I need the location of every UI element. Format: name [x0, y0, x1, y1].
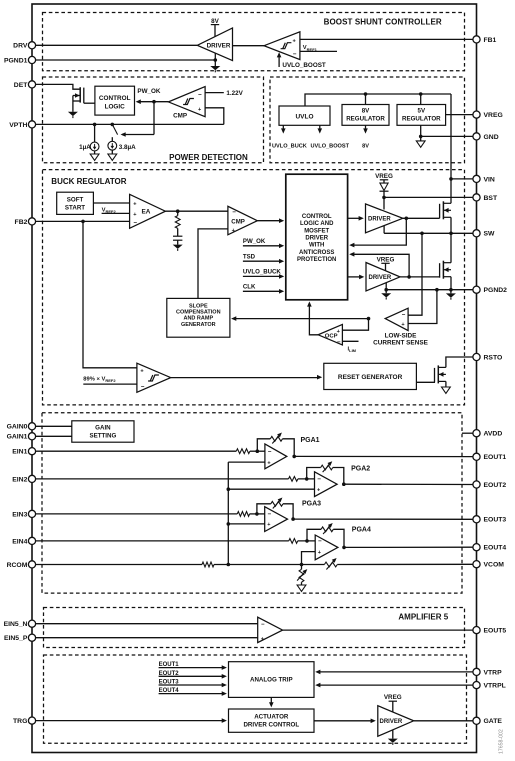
node high-side gate junction	[405, 217, 409, 221]
svg-text:3.8µA: 3.8µA	[119, 144, 136, 151]
wire PGA2 resistor to - input	[298, 478, 315, 480]
svg-text:AMPLIFIER 5: AMPLIFIER 5	[398, 612, 448, 621]
svg-text:VREG: VREG	[377, 256, 395, 263]
wire common-mode bus vertical	[227, 462, 229, 564]
ground compensation network (filled)	[173, 245, 183, 251]
svg-text:VTRP: VTRP	[484, 669, 503, 676]
node PGA2 summing junction	[305, 477, 309, 481]
current source 1uA	[79, 124, 99, 151]
svg-text:REGULATOR: REGULATOR	[346, 115, 385, 122]
wire PGND1 to driver ground node	[36, 59, 216, 61]
svg-text:DRIVER: DRIVER	[305, 236, 328, 242]
dashed box POWER DETECTION section	[43, 77, 264, 163]
pin DET	[14, 81, 36, 89]
svg-text:EIN5_N: EIN5_N	[4, 621, 28, 628]
wire EIN5_P to amplifier 5	[36, 637, 258, 639]
node SW junction current sense	[420, 232, 424, 236]
wire GAIN0 to gain setting	[36, 425, 72, 427]
svg-text:+: +	[267, 522, 270, 528]
svg-text:ANTICROSS: ANTICROSS	[299, 250, 334, 256]
ground gate driver (filled)	[388, 730, 398, 745]
node VPTH junction switch	[111, 123, 115, 127]
svg-text:LOGIC: LOGIC	[105, 103, 126, 110]
svg-text:DRIVER: DRIVER	[380, 719, 403, 725]
svg-text:GAIN0: GAIN0	[7, 424, 28, 431]
wire current sense + input to PGND2	[408, 290, 437, 324]
block SOFT START	[57, 192, 94, 214]
svg-text:PW_OK: PW_OK	[137, 88, 161, 95]
8V supply tick for boost driver	[211, 18, 220, 37]
wire PGA2 output to EOUT2	[344, 483, 473, 485]
svg-text:VREG: VREG	[484, 112, 503, 119]
ground PGND2 (filled)	[446, 290, 456, 300]
resistor PGA2 feedback (variable)	[307, 461, 344, 484]
ground regulator (open)	[416, 136, 425, 147]
wire slope comp to CMP + input	[198, 229, 228, 299]
pin GAIN1	[7, 433, 36, 441]
pin VTRP	[473, 668, 502, 676]
pin EOUT4	[473, 544, 506, 552]
resistor PGA3 feedback (variable)	[257, 498, 293, 520]
net UVLO_BUCK output arrow	[272, 125, 307, 149]
pin PGND1	[4, 56, 36, 64]
pin EOUT2	[473, 481, 506, 489]
op-amp PGA1	[265, 444, 287, 469]
net EOUT4 feedback into analog trip	[159, 688, 227, 696]
svg-text:CURRENT SENSE: CURRENT SENSE	[373, 340, 428, 347]
wire detect transistor gate to control logic	[84, 102, 95, 104]
svg-text:PGA3: PGA3	[302, 500, 321, 507]
svg-text:GENERATOR: GENERATOR	[181, 322, 216, 328]
svg-text:GND: GND	[484, 134, 499, 141]
wire bus drop to 5V regulator	[420, 94, 422, 105]
pin VPTH	[9, 121, 35, 129]
svg-text:UVLO_BOOST: UVLO_BOOST	[311, 143, 350, 149]
svg-text:PW_OK: PW_OK	[243, 238, 266, 245]
svg-text:BOOST SHUNT CONTROLLER: BOOST SHUNT CONTROLLER	[324, 18, 442, 27]
wire driver bottom edge to PGND1	[214, 53, 216, 60]
comparator reset threshold (hysteresis)	[137, 363, 171, 392]
dashed box PGA section	[42, 413, 462, 593]
pin EOUT3	[473, 516, 506, 524]
pin RSTO	[473, 353, 502, 361]
svg-text:GAIN1: GAIN1	[7, 434, 28, 441]
svg-text:MOSFET: MOSFET	[304, 228, 329, 234]
wire PGA3 output to EOUT3	[293, 518, 473, 520]
wire PGA4 + input down to RCOM	[302, 552, 316, 565]
pin GATE	[473, 717, 502, 725]
ground 1uA source (open)	[90, 151, 99, 161]
node PGA3 output junction	[291, 517, 295, 521]
pin VREG	[473, 111, 503, 119]
svg-text:PROTECTION: PROTECTION	[297, 257, 336, 263]
pin GND	[473, 133, 499, 141]
svg-text:UVLO_BOOST: UVLO_BOOST	[282, 62, 326, 69]
svg-text:SOFT: SOFT	[67, 197, 84, 204]
pin SW	[473, 230, 495, 238]
wire PGA2 + input to common bus	[228, 488, 314, 490]
comparator CMP power detect (hysteresis)	[168, 87, 205, 120]
pin EIN3	[12, 510, 35, 518]
pin EIN5_N	[4, 620, 36, 628]
wire reset comparator output to reset generator arrow	[171, 375, 323, 380]
transistor detect NMOS (gate right)	[73, 87, 84, 103]
svg-text:VREG: VREG	[375, 173, 393, 180]
node bus PGA3 + junction	[227, 522, 231, 526]
node RCOM PGA4 junction	[300, 563, 304, 567]
svg-text:−: −	[268, 449, 272, 456]
svg-text:DRIVER: DRIVER	[369, 275, 392, 281]
op-amp gate DRIVER	[378, 706, 414, 737]
wire low-side gate feedback into control box	[351, 254, 409, 277]
resistor compensation network	[175, 211, 180, 228]
svg-text:EIN5_P: EIN5_P	[4, 635, 28, 642]
node BST bootstrap junction	[382, 196, 386, 200]
wire PGA1 output to EOUT1	[294, 455, 473, 457]
svg-text:GATE: GATE	[484, 718, 503, 725]
svg-text:BUCK REGULATOR: BUCK REGULATOR	[51, 177, 126, 186]
wire FB2 junction down to 89% comparator	[83, 221, 137, 367]
pin EIN4	[12, 537, 35, 545]
pin EOUT5	[473, 627, 506, 635]
svg-text:−: −	[318, 538, 322, 545]
node SW junction mosfet	[449, 232, 453, 236]
wire VTRPL into analog trip arrow	[315, 683, 473, 688]
svg-text:EA: EA	[142, 209, 151, 216]
arrow low-side feedback into control box	[349, 252, 354, 257]
net VREG tick for gate driver	[384, 694, 402, 712]
current source 3.8uA	[108, 137, 136, 151]
svg-text:DET: DET	[14, 82, 28, 89]
op-amp PGA2	[315, 472, 338, 497]
node PGA4 summing junction	[305, 539, 309, 543]
resistor RCOM to ground (variable)	[297, 565, 307, 586]
net VREG tick for low-side driver	[377, 256, 395, 271]
net 1.22V reference into CMP - input	[205, 90, 244, 97]
svg-text:−: −	[261, 622, 265, 628]
net ILIM reference into OCP - input	[342, 341, 358, 353]
net UVLO_BOOST arrow into comparator	[277, 52, 326, 69]
svg-text:ILIM: ILIM	[348, 347, 357, 354]
node driver ground junction	[214, 58, 218, 62]
block CONTROL LOGIC	[95, 86, 135, 115]
wire comparator output PW_OK into control logic	[136, 99, 169, 104]
svg-text:−: −	[268, 511, 272, 518]
svg-text:TSD: TSD	[243, 253, 256, 260]
svg-text:TRG: TRG	[13, 718, 27, 725]
wire DRV to boost driver output	[36, 44, 198, 46]
svg-text:CLK: CLK	[243, 284, 256, 291]
pin VCOM	[473, 561, 504, 569]
wire low-side driver ground drop	[385, 283, 387, 290]
pin FB1	[473, 36, 497, 44]
node PGND2 junction sense	[435, 288, 439, 292]
svg-text:EOUT4: EOUT4	[484, 545, 507, 552]
svg-text:VREF1: VREF1	[303, 45, 318, 52]
wire EIN3 input	[36, 513, 238, 515]
wire FB1 to comparator + input	[300, 38, 473, 40]
wire low-side driver output to gate	[400, 276, 440, 278]
block CONTROL LOGIC AND MOSFET DRIVER WITH ANTICROSS PROTECTION	[286, 174, 348, 300]
dashed box trigger/actuator section	[44, 655, 467, 743]
svg-text:FB2: FB2	[15, 219, 28, 226]
svg-text:COMPENSATION: COMPENSATION	[176, 310, 221, 316]
node PGA3 summing junction	[255, 512, 259, 516]
svg-text:UVLO: UVLO	[295, 113, 313, 120]
svg-text:DRIVER: DRIVER	[368, 217, 391, 223]
svg-text:AND RAMP: AND RAMP	[183, 316, 213, 322]
resistor PGA1 input	[236, 449, 250, 454]
pin EOUT1	[473, 453, 506, 461]
pin RCOM	[7, 561, 36, 569]
svg-text:EIN2: EIN2	[12, 476, 27, 483]
svg-text:SLOPE: SLOPE	[189, 303, 208, 309]
svg-text:8V: 8V	[362, 143, 369, 149]
node low-side gate junction	[407, 275, 411, 279]
dashed box BOOST SHUNT CONTROLLER section	[43, 13, 465, 71]
net CLK stub into control box	[243, 284, 284, 294]
wire current sense - input to SW	[408, 233, 422, 315]
resistor RCOM to VCOM (variable)	[324, 558, 337, 570]
svg-text:PGA2: PGA2	[351, 466, 370, 473]
op-amp PGA3	[265, 507, 288, 532]
block 5V REGULATOR	[397, 105, 446, 126]
ground RCOM divider (open)	[297, 585, 306, 591]
node FB2 junction	[81, 220, 85, 224]
wire SW rail	[384, 232, 473, 234]
wire high-side driver bottom to SW	[383, 226, 385, 233]
wire soft start to EA input	[93, 202, 129, 204]
capacitor compensation network	[173, 228, 182, 244]
svg-text:EOUT2: EOUT2	[484, 482, 507, 489]
resistor PGA1 feedback (variable)	[257, 433, 294, 457]
wire gate driver output to GATE pin	[414, 720, 473, 722]
pin DRV	[13, 42, 35, 50]
wire PGA4 output to EOUT4	[344, 546, 473, 548]
diode bootstrap from VREG to BST	[380, 180, 389, 198]
svg-text:UVLO_BUCK: UVLO_BUCK	[272, 143, 307, 149]
pin GAIN0	[7, 423, 36, 431]
net UVLO_BUCK stub into control box	[243, 269, 284, 279]
resistor RCOM series	[202, 562, 214, 567]
wire VTRP into analog trip arrow	[315, 670, 473, 675]
svg-text:DRV: DRV	[13, 43, 28, 50]
net TSD stub into control box	[243, 253, 284, 263]
pin TRG	[13, 717, 36, 725]
svg-text:−: −	[337, 339, 341, 346]
svg-text:VREG: VREG	[384, 694, 402, 701]
svg-text:−: −	[402, 311, 406, 318]
wire RCOM resistor to VCOM divider	[214, 564, 324, 566]
ground low-side driver (filled)	[381, 290, 391, 300]
node PGND2 junction mosfet	[449, 288, 453, 292]
wire OCP + input from sense output	[342, 319, 368, 331]
transistor low-side NMOS	[440, 261, 451, 279]
svg-text:LOGIC AND: LOGIC AND	[300, 221, 334, 227]
ground 3.8uA source (open)	[108, 150, 117, 160]
svg-text:VREF2: VREF2	[102, 207, 117, 214]
svg-text:−: −	[141, 383, 145, 390]
svg-text:−: −	[198, 91, 202, 98]
ground RSTO source (open)	[442, 381, 451, 393]
net EOUT3 feedback into analog trip	[159, 680, 227, 688]
svg-text:5V: 5V	[418, 107, 426, 114]
wire low-side drain to SW	[450, 233, 452, 262]
pin EIN5_P	[4, 634, 36, 642]
wire CMP + input to VPTH	[205, 108, 224, 125]
svg-text:PGND2: PGND2	[484, 287, 508, 294]
net EOUT1 feedback into analog trip	[159, 662, 227, 670]
wire VPTH rail	[36, 123, 224, 125]
wire PGA3 resistor to - input	[250, 513, 265, 515]
svg-text:POWER DETECTION: POWER DETECTION	[169, 153, 248, 162]
svg-text:CONTROL: CONTROL	[99, 95, 131, 102]
wire 5V regulator to VREG pin	[446, 114, 473, 116]
dashed box BUCK REGULATOR section	[43, 170, 465, 405]
svg-text:+: +	[317, 487, 320, 493]
svg-text:+: +	[318, 550, 321, 556]
wire BST rail	[384, 196, 473, 198]
wire GND pin to regulator ground	[421, 135, 473, 137]
wire EA output to CMP	[165, 210, 228, 212]
svg-text:PGA1: PGA1	[301, 437, 320, 444]
wire BST down into high-side driver	[383, 197, 385, 209]
svg-text:RSTO: RSTO	[484, 354, 503, 361]
node PW_OK junction	[152, 100, 156, 104]
svg-text:PGND1: PGND1	[4, 57, 28, 64]
svg-text:VTRPL: VTRPL	[484, 683, 506, 690]
svg-text:ANALOG TRIP: ANALOG TRIP	[250, 677, 293, 684]
node bus PGA2 + junction	[227, 487, 231, 491]
svg-text:RCOM: RCOM	[7, 562, 28, 569]
svg-text:CMP: CMP	[173, 112, 187, 119]
pin VTRPL	[473, 682, 506, 690]
wire PGA3 + input to common bus	[228, 523, 264, 525]
svg-text:8V: 8V	[362, 107, 370, 114]
pin AVDD	[473, 430, 502, 438]
wire switch control arrow	[121, 132, 155, 137]
svg-text:EOUT1: EOUT1	[484, 454, 507, 461]
net 89% VREF2 reference into reset comparator	[83, 377, 137, 385]
net EOUT2 feedback into analog trip	[159, 671, 227, 679]
net VREF2 reference into EA	[102, 207, 130, 214]
wire VIN pin to bus	[451, 178, 473, 180]
svg-text:WITH: WITH	[309, 243, 324, 249]
svg-text:17658-002: 17658-002	[499, 729, 505, 754]
wire PGA4 resistor to - input	[298, 540, 316, 542]
wire actuator control to gate driver arrow	[314, 719, 376, 724]
wire boost comparator output to driver input	[233, 45, 265, 47]
wire GAIN1 to gain setting	[36, 435, 72, 437]
wire high-side driver output to gate	[403, 217, 440, 219]
wire CMP output arrow into control box	[257, 218, 284, 223]
net PW_OK stub into control box	[243, 238, 284, 248]
resistor PGA2 input	[289, 477, 298, 482]
svg-text:CONTROL: CONTROL	[302, 214, 332, 220]
wire current sense output arrow into slope comp	[231, 316, 368, 321]
wire PGA1 + input to common bus	[228, 461, 265, 463]
node bus RCOM junction	[227, 563, 231, 567]
comparator OCP overcurrent	[318, 324, 342, 346]
net VREF1 reference into comparator - input	[300, 45, 337, 52]
dashed box AMPLIFIER 5 section	[44, 608, 465, 648]
svg-text:−: −	[317, 476, 321, 483]
node PGA4 output junction	[342, 546, 346, 550]
svg-text:1µA: 1µA	[79, 144, 91, 151]
pin BST	[473, 194, 498, 202]
wire EIN5_N to amplifier 5	[36, 623, 258, 625]
svg-text:SETTING: SETTING	[89, 433, 116, 440]
transistor RSTO open-drain NMOS	[435, 365, 446, 383]
wire amplifier 5 output to EOUT5	[283, 629, 473, 631]
wire EIN4 input	[36, 540, 289, 542]
wire high-side drain to VIN	[450, 179, 452, 203]
resistor PGA4 input	[289, 539, 298, 544]
svg-text:+: +	[267, 460, 270, 466]
net UVLO_BOOST output arrow	[311, 125, 350, 149]
node PGA1 output junction	[292, 455, 296, 459]
block ANALOG TRIP	[229, 662, 315, 698]
ground PGND1 (filled)	[210, 60, 220, 72]
node EA compensation junction	[176, 209, 180, 213]
svg-text:−: −	[133, 220, 137, 227]
svg-text:REGULATOR: REGULATOR	[402, 115, 441, 122]
svg-text:−: −	[232, 209, 236, 216]
switch for 3.8uA source	[112, 124, 117, 134]
wire EIN2 input	[36, 478, 289, 480]
block SLOPE COMPENSATION AND RAMP GENERATOR	[167, 298, 230, 337]
svg-text:EOUT3: EOUT3	[484, 517, 507, 524]
wire bus drop to 8V regulator	[365, 94, 367, 105]
node current sense output junction to OCP	[367, 317, 371, 321]
wire VIN supply bus	[305, 94, 451, 106]
wire reset generator to RSTO transistor gate	[416, 381, 435, 383]
wire TRG into actuator driver control arrow	[36, 718, 227, 723]
svg-text:+: +	[261, 636, 264, 642]
svg-text:EIN1: EIN1	[12, 449, 27, 456]
resistor PGA4 feedback (variable)	[307, 523, 344, 547]
svg-text:ACTUATOR: ACTUATOR	[254, 714, 289, 721]
node PGA2 output junction	[342, 482, 346, 486]
svg-text:EOUT5: EOUT5	[484, 628, 507, 635]
wire DET to detect transistor drain	[36, 84, 80, 89]
wire 5V regulator ground drop	[420, 125, 422, 136]
svg-text:SW: SW	[484, 231, 496, 238]
svg-text:VIN: VIN	[484, 176, 495, 183]
op-amp AMPLIFIER 5	[258, 617, 283, 642]
resistor PGA3 input	[237, 512, 249, 517]
op-amp boost DRIVER	[197, 28, 232, 61]
svg-text:8V: 8V	[211, 18, 220, 25]
svg-text:VPTH: VPTH	[9, 122, 27, 129]
svg-text:89% × VREF2: 89% × VREF2	[83, 377, 116, 384]
block RESET GENERATOR	[324, 363, 417, 389]
svg-text:DRIVER CONTROL: DRIVER CONTROL	[243, 722, 299, 729]
wire high-side gate feedback into control box	[351, 218, 406, 245]
node regulator ground junction	[419, 135, 423, 139]
block ACTUATOR DRIVER CONTROL	[229, 709, 315, 732]
block GAIN SETTING	[72, 421, 134, 442]
wire divider to VCOM pin	[337, 563, 473, 565]
wire OCP output up into control box	[307, 301, 318, 334]
pin PGND2	[473, 286, 507, 294]
comparator CMP buck PWM	[228, 206, 257, 235]
svg-text:CMP: CMP	[231, 218, 245, 225]
svg-text:−: −	[293, 51, 297, 58]
dashed box regulator/UVLO section	[270, 77, 465, 163]
svg-text:FB1: FB1	[484, 37, 497, 44]
op-amp low-side DRIVER	[366, 263, 400, 292]
